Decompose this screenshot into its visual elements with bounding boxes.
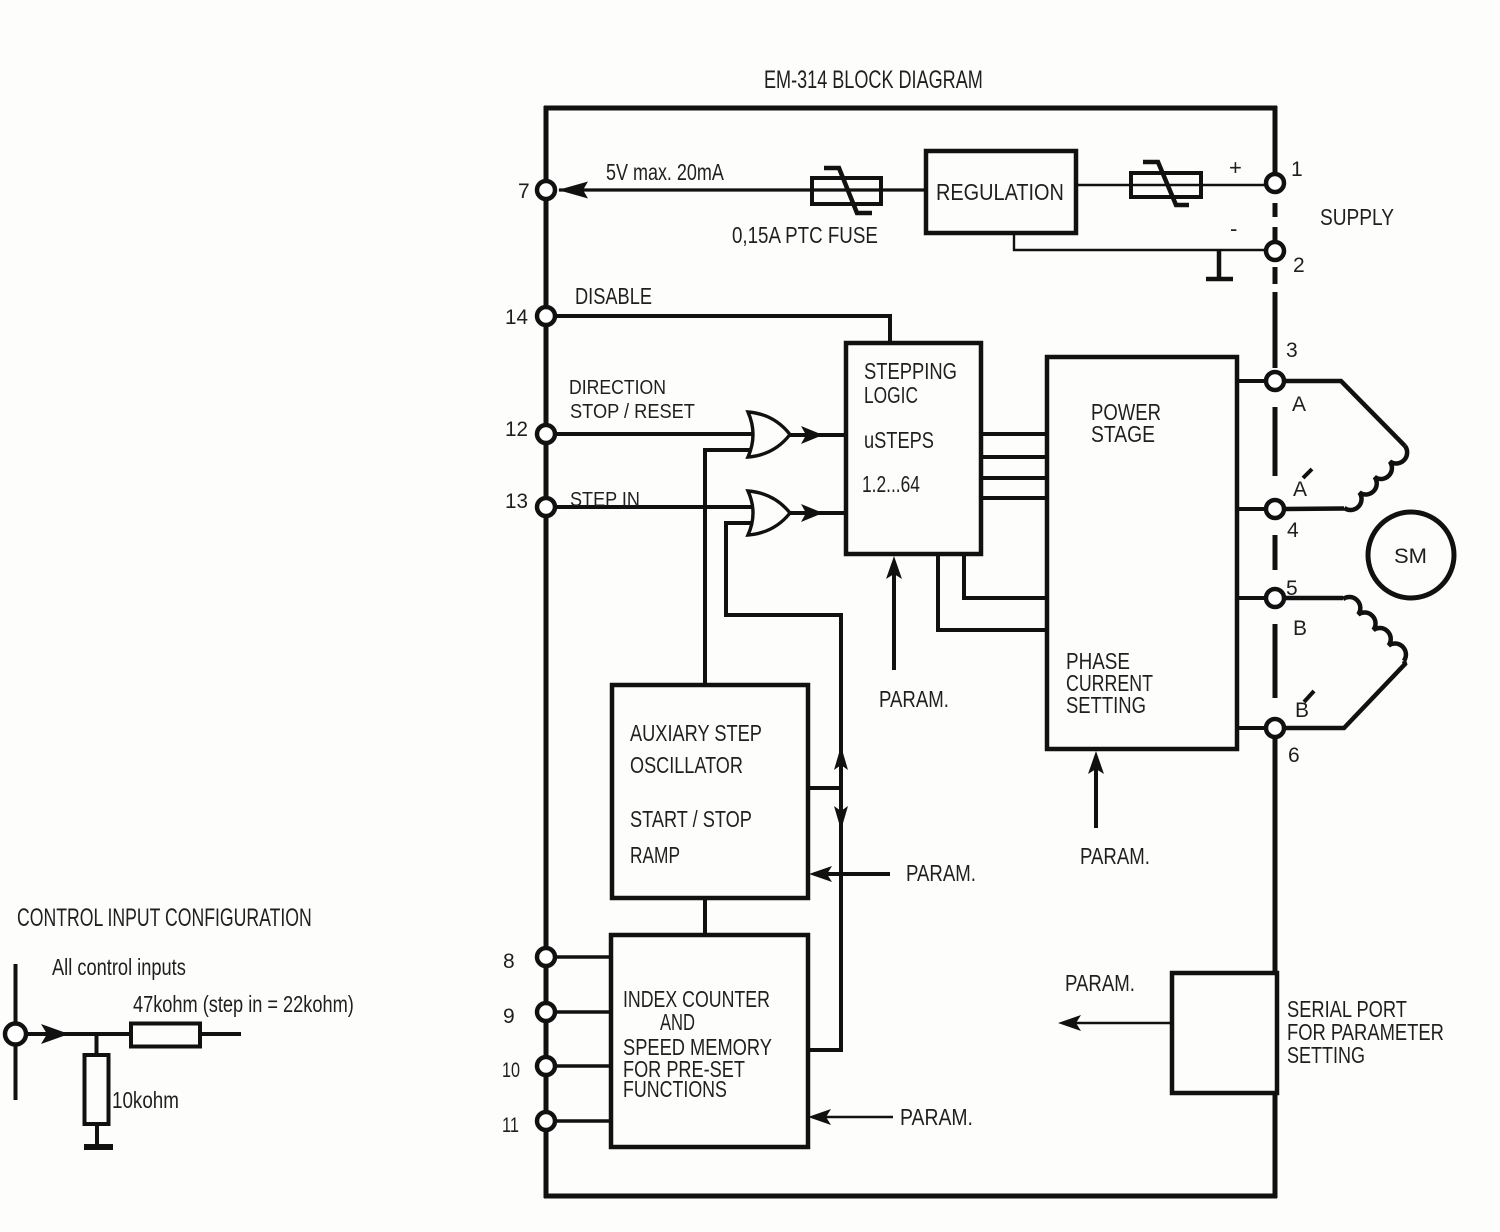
- param arrow into INDEX COUNTER right: [812, 1116, 893, 1119]
- wire control input node to resistor R1: [27, 1032, 132, 1036]
- bus line 1 STEPPING LOGIC to POWER STAGE: [981, 432, 1047, 436]
- wire STEP IN from terminal 13 to OR gate G2: [556, 505, 753, 509]
- svg-text:A: A: [1292, 393, 1306, 416]
- wire dashed segment terminal 1 to 2: [1273, 203, 1278, 241]
- block REGULATION: [926, 151, 1076, 233]
- wire OR gate G2 output to STEPPING LOGIC: [790, 511, 846, 515]
- wire POWER STAGE to terminal 4: [1237, 507, 1266, 511]
- wire OR gate G1 lower input from oscillator line: [705, 450, 753, 685]
- svg-text:-: -: [1230, 216, 1237, 241]
- svg-text:EM-314 BLOCK DIAGRAM: EM-314 BLOCK DIAGRAM: [764, 65, 983, 94]
- wire terminal 8 to INDEX COUNTER: [556, 955, 611, 959]
- svg-text:STOP / RESET: STOP / RESET: [570, 400, 695, 423]
- svg-text:DIRECTION: DIRECTION: [569, 377, 666, 400]
- wire dashed segment terminal 5 to 6: [1273, 624, 1278, 698]
- svg-text:14: 14: [505, 306, 528, 329]
- wire dashed segment terminal 2 to 3: [1273, 267, 1278, 368]
- param arrow out of SERIAL PORT left: [1062, 1022, 1172, 1025]
- svg-text:All control inputs: All control inputs: [52, 955, 186, 980]
- param arrow into POWER STAGE bottom: [1094, 757, 1098, 828]
- svg-text:PARAM.: PARAM.: [879, 687, 949, 712]
- svg-text:4: 4: [1287, 519, 1299, 542]
- svg-text:uSTEPS: uSTEPS: [864, 428, 934, 453]
- fuse F1 0,15A PTC (body): [812, 178, 881, 204]
- wire frame bottom edge: [544, 1194, 1277, 1199]
- param arrow into AUXIARY OSCILLATOR right: [814, 872, 890, 876]
- svg-text:SERIAL PORT: SERIAL PORT: [1287, 997, 1407, 1022]
- arrowhead at terminal 7: [558, 182, 588, 199]
- svg-text:START / STOP: START / STOP: [630, 807, 752, 833]
- motor winding B (terminals 5 to 6): [1285, 597, 1406, 728]
- fuse F2 diagonal strike: [1143, 162, 1189, 205]
- wire frame right edge upper segment: [1273, 106, 1278, 173]
- terminal 14: [537, 307, 555, 325]
- fuse F2 (body): [1131, 173, 1201, 197]
- bus line 4: [981, 496, 1047, 500]
- svg-text:3: 3: [1286, 339, 1298, 362]
- fuse F1 diagonal strike: [824, 168, 872, 213]
- svg-text:1.2...64: 1.2...64: [862, 473, 920, 498]
- resistor R2 10kohm: [85, 1055, 109, 1124]
- wire junction down to resistor R2: [95, 1034, 99, 1055]
- svg-text:5: 5: [1286, 577, 1298, 600]
- wire OR gate G2 lower input feedback: [726, 523, 841, 615]
- svg-text:STEPPING: STEPPING: [864, 359, 957, 384]
- wire frame left edge: [544, 106, 549, 1198]
- svg-text:STAGE: STAGE: [1091, 423, 1155, 448]
- svg-text:5V max. 20mA: 5V max. 20mA: [606, 160, 724, 186]
- svg-text:INDEX COUNTER: INDEX COUNTER: [623, 987, 770, 1013]
- OR gate G2 (step in): [748, 491, 790, 535]
- svg-text:FOR PARAMETER: FOR PARAMETER: [1287, 1020, 1444, 1045]
- terminal 2: [1266, 242, 1284, 260]
- svg-text:10kohm: 10kohm: [112, 1088, 179, 1113]
- svg-text:A: A: [1293, 478, 1307, 501]
- block STEPPING LOGIC: [846, 343, 981, 554]
- terminal 13: [537, 498, 555, 516]
- ground symbol control input: [84, 1144, 113, 1150]
- svg-text:PARAM.: PARAM.: [906, 861, 976, 886]
- wire 5V output from REGULATION to terminal 7: [559, 188, 926, 191]
- svg-text:SETTING: SETTING: [1287, 1043, 1365, 1069]
- svg-text:9: 9: [503, 1005, 515, 1028]
- wire POWER STAGE to terminal 3: [1237, 379, 1266, 383]
- svg-text:7: 7: [518, 180, 530, 203]
- svg-text:B: B: [1293, 617, 1307, 640]
- wire OR gate G1 output to STEPPING LOGIC: [790, 433, 846, 437]
- svg-text:AND: AND: [660, 1010, 695, 1035]
- svg-text:DISABLE: DISABLE: [575, 284, 652, 309]
- svg-text:RAMP: RAMP: [630, 844, 680, 869]
- svg-text:0,15A PTC FUSE: 0,15A PTC FUSE: [732, 223, 878, 248]
- svg-text:6: 6: [1288, 744, 1300, 767]
- svg-text:1: 1: [1291, 158, 1303, 181]
- label phase B-prime: [1295, 691, 1314, 722]
- block INDEX COUNTER AND SPEED MEMORY: [611, 935, 808, 1147]
- bus line 2: [981, 455, 1047, 459]
- svg-text:SM: SM: [1394, 544, 1427, 567]
- svg-text:STEP IN: STEP IN: [570, 489, 640, 511]
- svg-text:REGULATION: REGULATION: [936, 180, 1064, 206]
- svg-text:8: 8: [503, 950, 515, 973]
- block AUXIARY STEP OSCILLATOR: [612, 685, 808, 898]
- arrowhead G1 output: [801, 426, 823, 444]
- wire oscillator bottom to INDEX COUNTER top: [703, 898, 707, 935]
- svg-text:11: 11: [502, 1113, 519, 1136]
- terminal 12: [537, 425, 555, 443]
- terminal 11: [537, 1112, 555, 1130]
- terminal 5: [1266, 589, 1284, 607]
- svg-text:2: 2: [1293, 254, 1305, 277]
- svg-text:OSCILLATOR: OSCILLATOR: [630, 753, 743, 779]
- svg-text:AUXIARY STEP: AUXIARY STEP: [630, 721, 762, 746]
- svg-text:10: 10: [502, 1058, 520, 1082]
- bus line 3: [981, 476, 1047, 480]
- arrowhead on control input wire: [41, 1024, 69, 1044]
- wire DISABLE from terminal 14 to STEPPING LOGIC top: [556, 316, 890, 343]
- wire REGULATION to terminal 1: [1076, 184, 1266, 186]
- terminal 4: [1266, 500, 1284, 518]
- svg-text:SUPPLY: SUPPLY: [1320, 205, 1394, 230]
- motor winding A (terminals 3 to 4): [1285, 381, 1407, 510]
- terminal 1: [1266, 174, 1284, 192]
- wire DIRECTION STOP/RESET from terminal 12 to OR gate G1: [556, 432, 753, 436]
- terminal 6: [1266, 719, 1284, 737]
- svg-text:47kohm (step in = 22kohm): 47kohm (step in = 22kohm): [133, 992, 354, 1018]
- wire resistor R2 to ground: [95, 1124, 99, 1144]
- wire STEPPING LOGIC bottom to POWER STAGE lower: [938, 554, 1047, 630]
- wire resistor R1 to right: [200, 1032, 241, 1036]
- svg-text:PARAM.: PARAM.: [1080, 844, 1150, 869]
- wire POWER STAGE to terminal 6: [1237, 726, 1266, 730]
- wire terminal 10 to INDEX COUNTER: [556, 1064, 611, 1068]
- terminal 3: [1266, 372, 1284, 390]
- wire terminal 11 to INDEX COUNTER: [556, 1119, 611, 1123]
- svg-text:12: 12: [505, 418, 528, 441]
- terminal 8: [537, 948, 555, 966]
- svg-text:LOGIC: LOGIC: [864, 384, 918, 409]
- svg-text:PARAM.: PARAM.: [900, 1104, 973, 1130]
- wire REGULATION 0V output to terminal 2: [1014, 233, 1266, 250]
- svg-text:FUNCTIONS: FUNCTIONS: [623, 1077, 727, 1103]
- terminal 7: [537, 181, 555, 199]
- param arrow into STEPPING LOGIC bottom: [892, 562, 896, 670]
- wire frame right edge lower segment: [1273, 738, 1278, 1198]
- label phase A-prime: [1293, 469, 1312, 501]
- wire dashed segment terminal 3 to 4: [1273, 407, 1278, 476]
- wire feedback vertical to INDEX COUNTER: [808, 613, 841, 1050]
- OR gate G1 (direction/stop/reset): [748, 412, 790, 457]
- terminal 9: [537, 1003, 555, 1021]
- node all control inputs: [5, 1024, 26, 1045]
- ground symbol at supply return: [1206, 250, 1233, 279]
- svg-text:13: 13: [505, 490, 528, 513]
- arrowhead G2 output: [801, 504, 823, 522]
- wire terminal 9 to INDEX COUNTER: [556, 1010, 611, 1014]
- arrow up on feedback line: [834, 746, 848, 770]
- resistor R1 47kohm: [131, 1024, 200, 1047]
- svg-text:SETTING: SETTING: [1066, 693, 1146, 718]
- wire POWER STAGE to terminal 5: [1237, 596, 1266, 600]
- wire frame top edge: [544, 106, 1277, 111]
- wire oscillator output to feedback line: [808, 786, 841, 790]
- wire STEPPING LOGIC bottom to POWER STAGE upper: [964, 554, 1047, 598]
- control input vertical bus wire: [14, 964, 18, 1100]
- terminal 10: [537, 1057, 555, 1075]
- block POWER STAGE / PHASE CURRENT SETTING: [1047, 357, 1237, 749]
- arrow down on feedback line: [834, 806, 848, 830]
- stepper motor SM circle: [1368, 512, 1454, 598]
- svg-text:CONTROL INPUT CONFIGURATION: CONTROL INPUT CONFIGURATION: [17, 903, 312, 932]
- svg-text:B: B: [1295, 699, 1309, 722]
- wire dashed segment terminal 4 to 5: [1273, 535, 1278, 570]
- block SERIAL PORT: [1172, 973, 1277, 1093]
- svg-text:+: +: [1229, 155, 1242, 180]
- svg-text:PARAM.: PARAM.: [1065, 971, 1135, 996]
